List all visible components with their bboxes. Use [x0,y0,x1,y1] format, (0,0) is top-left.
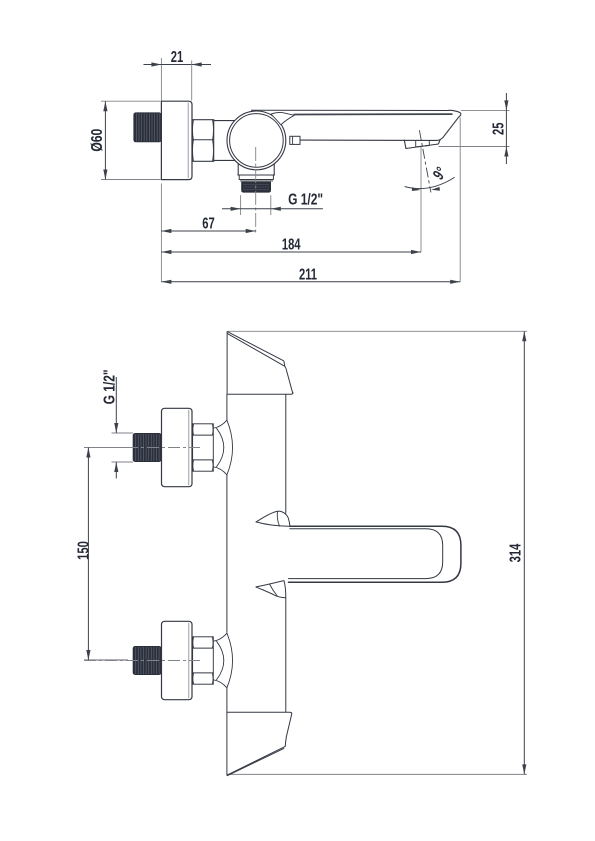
svg-text:184: 184 [282,235,301,254]
dimension 21 [144,64,212,66]
extension line at aerator (x=421) [420,147,422,252]
dimension G 1/2 (side view) [240,195,242,215]
body left edge (front view) [226,394,228,420]
dimension 25 [461,109,510,111]
svg-text:67: 67 [202,214,215,233]
valve centerline (x=256) [255,147,257,233]
wall mounting line (side view) [160,58,162,180]
front view top line / 314 extension [227,330,527,332]
escutcheon flange (side view) [161,101,192,179]
dimension 184 [161,251,421,253]
outlet axis 9deg (dashed) [419,130,431,192]
hex nut (side view) [192,120,213,162]
dimension 150 [84,447,128,449]
dimension 211 [161,281,460,283]
shower hose outlet G1/2 (side view) [237,164,239,175]
dimension 67 [161,230,255,232]
svg-text:21: 21 [171,47,184,66]
spout (side view) [251,109,449,111]
dimension 314 [523,331,525,774]
svg-text:25: 25 [488,122,507,135]
valve body circle (side view) [227,111,286,170]
svg-text:G 1/2": G 1/2" [288,190,323,208]
cartridge nub (side view) [290,136,300,144]
svg-text:150: 150 [74,541,93,560]
body right edge (front view) [285,394,287,513]
svg-text:Ø60: Ø60 [88,129,106,152]
bottom inlet connector (front view) [133,646,162,675]
aerator outlet (side view) [404,140,440,149]
front view bottom line / 314 extension [227,773,527,775]
top inlet connector (front view) [133,433,162,462]
svg-text:211: 211 [299,264,317,283]
svg-text:G 1/2": G 1/2" [100,369,118,404]
front top wedge (spout end silhouette) [226,331,228,394]
wall supply thread (side view) [133,112,161,142]
extension line at spout tip (x=460) [459,118,461,282]
front bottom wedge [227,712,292,714]
lever handle (front view) [289,526,461,582]
dimension G 1/2 (front view) [112,432,134,434]
angle dimension 9deg [405,178,454,189]
connector cylinder (side view) [214,120,235,122]
svg-text:314: 314 [506,543,525,562]
dimension diameter 60 [101,100,161,102]
